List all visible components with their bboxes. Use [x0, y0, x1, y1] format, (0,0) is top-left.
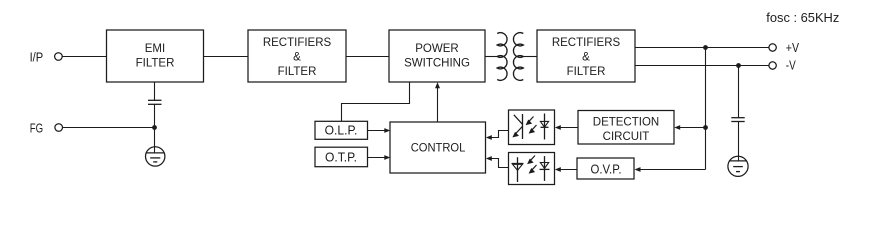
- svg-text:&: &: [582, 52, 590, 64]
- block O.L.P.: [315, 121, 368, 139]
- wire rectifiers2 to -V terminal: [635, 65, 769, 67]
- ground (earth, left): [146, 147, 165, 166]
- photocoupler U2 LED: [540, 156, 550, 181]
- svg-text:FILTER: FILTER: [567, 66, 606, 78]
- svg-text:O.V.P.: O.V.P.: [591, 161, 622, 176]
- svg-text:-V: -V: [786, 58, 796, 73]
- wire EMI to rectifiers1: [204, 56, 249, 58]
- svg-text:FILTER: FILTER: [136, 58, 175, 70]
- wire EMI filter bottom to capacitor C1: [154, 82, 156, 100]
- svg-text:CONTROL: CONTROL: [411, 141, 466, 155]
- wire photocoupler U1 to control (arrow): [491, 131, 509, 138]
- svg-text:&: &: [293, 52, 301, 64]
- svg-text:CIRCUIT: CIRCUIT: [603, 131, 650, 143]
- block CONTROL: [390, 122, 486, 173]
- svg-text:FILTER: FILTER: [278, 66, 317, 78]
- wire detection circuit to photocoupler U1 (arrow): [560, 127, 579, 129]
- terminal -V: [769, 62, 776, 69]
- photocoupler U1 phototransistor: [512, 114, 522, 139]
- wire +V sense to detection circuit (arrow): [679, 127, 706, 129]
- svg-text:FG: FG: [30, 120, 43, 135]
- block RECTIFIERS & FILTER (output): [537, 30, 635, 82]
- svg-text:+V: +V: [786, 40, 799, 55]
- wire control to power switching (arrow up): [437, 87, 439, 122]
- wire rectifiers1 to power switching: [346, 56, 389, 58]
- photocoupler U2 light arrows: [527, 156, 536, 174]
- svg-text:O.T.P.: O.T.P.: [325, 149, 357, 164]
- wire capacitor C2 to ground: [738, 122, 740, 161]
- photocoupler U1 LED: [540, 114, 548, 140]
- block O.T.P.: [315, 147, 368, 167]
- photocoupler U2 box: [509, 153, 555, 185]
- wire O.T.P. to control (arrow): [368, 157, 386, 159]
- transformer T1 primary winding: [497, 33, 507, 81]
- svg-text:EMI: EMI: [145, 43, 165, 55]
- photocoupler U1 box: [509, 110, 555, 145]
- block EMI FILTER: [107, 30, 204, 82]
- ground (earth, right): [728, 156, 748, 176]
- svg-text:O.L.P.: O.L.P.: [325, 123, 358, 138]
- wire I/P to EMI filter: [62, 56, 106, 58]
- wire power switching to O.L.P.: [342, 82, 410, 121]
- wire +V sense line (vertical): [705, 48, 707, 170]
- block DETECTION CIRCUIT: [578, 111, 674, 145]
- wire O.V.P. to photocoupler U2 (arrow): [560, 169, 578, 171]
- wire O.L.P. to control (arrow): [368, 130, 386, 132]
- svg-text:I/P: I/P: [30, 49, 44, 64]
- junction on -V rail: [736, 63, 741, 68]
- capacitor C1 (line filter Y-cap): [148, 99, 162, 101]
- svg-text:DETECTION: DETECTION: [593, 117, 659, 129]
- photocoupler U1 light arrows: [526, 117, 537, 134]
- terminal +V: [769, 44, 776, 51]
- wire FG to ground node: [63, 127, 155, 129]
- svg-text:POWER: POWER: [415, 43, 458, 55]
- wire -V rail to capacitor C2: [738, 66, 740, 118]
- photocoupler U2 photothyristor: [512, 157, 524, 182]
- junction FG/ground node: [152, 125, 157, 130]
- block POWER SWITCHING: [389, 30, 485, 82]
- svg-text:SWITCHING: SWITCHING: [404, 58, 470, 70]
- svg-text:fosc : 65KHz: fosc : 65KHz: [766, 10, 839, 25]
- wire transformer secondary to rectifiers2: [523, 56, 537, 58]
- wire +V sense to O.V.P. (arrow): [639, 169, 706, 171]
- wire power switching to transformer primary: [485, 56, 497, 58]
- terminal FG: [55, 124, 63, 132]
- wire capacitor C1 to FG node and ground: [154, 104, 156, 152]
- terminal I/P: [55, 53, 63, 61]
- svg-text:RECTIFIERS: RECTIFIERS: [552, 37, 621, 49]
- block RECTIFIERS & FILTER (input): [248, 30, 346, 82]
- wire photocoupler U2 to control (arrow): [491, 159, 509, 168]
- svg-text:RECTIFIERS: RECTIFIERS: [263, 37, 332, 49]
- junction on +V rail: [703, 45, 708, 50]
- junction sense line / detection: [703, 125, 708, 130]
- capacitor C2 (output Y-cap): [731, 117, 744, 119]
- wire rectifiers2 to +V terminal: [635, 47, 769, 49]
- transformer T1 secondary winding: [513, 33, 523, 81]
- block O.V.P.: [577, 158, 634, 179]
